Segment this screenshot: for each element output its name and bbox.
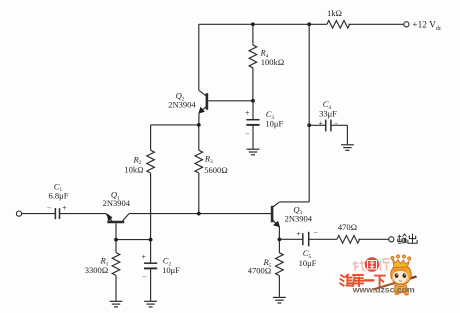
watermark zhao glyph: [353, 261, 366, 272]
label 1k ohm value: [327, 8, 342, 18]
svg-text:2N3904: 2N3904: [168, 100, 196, 110]
svg-text:+: +: [245, 109, 250, 118]
wire input to C1: [21, 213, 55, 215]
label C4 value: [319, 108, 337, 118]
supply terminal: [404, 22, 409, 27]
ground under C3: [247, 149, 260, 155]
label C5: [303, 248, 312, 260]
label R1 value 3300: [85, 265, 109, 275]
wire Q3 collector horizontal: [280, 201, 310, 203]
label R1: [100, 256, 109, 268]
wire C4 ground drop: [346, 125, 348, 144]
node Q3 emitter R5 output junction: [278, 238, 282, 242]
label Q3 type: [285, 214, 313, 224]
wire R1 lower lead: [115, 275, 117, 300]
ground under R1: [110, 301, 123, 307]
resistor R3: [195, 150, 203, 173]
label R3: [204, 153, 213, 165]
node R2 C2 junction: [149, 238, 153, 242]
wire R2 column upper lead: [150, 125, 152, 150]
svg-text:+: +: [296, 230, 301, 239]
svg-text:5600Ω: 5600Ω: [204, 165, 228, 175]
wire C2 upper lead: [150, 240, 152, 263]
svg-text:470Ω: 470Ω: [338, 222, 357, 232]
svg-text:−: −: [313, 228, 317, 237]
svg-text:10kΩ: 10kΩ: [124, 165, 143, 175]
watermark weiku yixia text: [340, 275, 385, 286]
svg-text:2N3904: 2N3904: [285, 214, 313, 224]
wire C3 upper lead: [252, 101, 254, 120]
label C2 minus: [142, 273, 146, 282]
label C2 plus: [142, 252, 147, 261]
transistor Q3: [272, 202, 280, 227]
label C5 minus: [313, 228, 317, 237]
wire R3 column upper lead: [198, 125, 200, 150]
label R2: [133, 154, 142, 166]
capacitor C4: [326, 120, 331, 132]
watermark pian glyph: [381, 259, 391, 272]
svg-text:−: −: [47, 204, 51, 213]
label C3: [266, 109, 275, 121]
output terminal: [389, 237, 394, 242]
resistor R4: [249, 45, 257, 68]
wire top rail right segment to terminal: [348, 23, 404, 25]
node Q1 base R1 junction: [114, 238, 118, 242]
label R5: [263, 257, 272, 269]
svg-text:100kΩ: 100kΩ: [261, 57, 285, 67]
label C5 plus: [296, 230, 301, 239]
capacitor C1: [55, 208, 59, 219]
transistor Q1: [106, 213, 129, 222]
label +12V supply: [412, 21, 442, 32]
label C1 value: [49, 191, 69, 201]
svg-text:3300Ω: 3300Ω: [85, 265, 109, 275]
label C4 plus: [318, 119, 323, 128]
label Q1 type: [103, 198, 131, 208]
label R5 value 4700: [248, 266, 272, 276]
wire main signal line Q1 collector to Q3 base: [129, 213, 271, 215]
svg-text:www.dzsc.com: www.dzsc.com: [352, 285, 415, 295]
transistor Q2: [198, 90, 207, 125]
label C1 plus: [62, 204, 67, 213]
label C5 value: [299, 258, 317, 268]
label C2: [163, 256, 172, 268]
wire R4 lower lead to node A: [252, 68, 254, 101]
node A Q2 base R4 C3 junction: [251, 99, 255, 103]
watermark tu badge: [365, 257, 379, 271]
wire Q1 base drop: [115, 223, 117, 239]
wire R3 column lower lead: [198, 173, 200, 214]
label C4 minus: [334, 119, 338, 128]
label Q2: [176, 91, 185, 103]
capacitor C3: [246, 120, 259, 125]
capacitor C2: [144, 263, 157, 268]
wire R2 column lower lead crossing signal line: [150, 173, 152, 240]
label output (shuchu): [397, 234, 417, 244]
label C4: [323, 99, 332, 111]
capacitor C5: [303, 232, 309, 247]
label 470 ohm value: [338, 222, 357, 232]
resistor R2: [147, 150, 155, 173]
wire right vertical column: [308, 24, 310, 202]
svg-text:10μF: 10μF: [265, 119, 283, 129]
svg-text:+: +: [142, 252, 147, 261]
wire R2 top link: [151, 124, 199, 126]
svg-text:−: −: [334, 119, 338, 128]
wire R5 upper lead: [278, 239, 280, 252]
wire Q2 base to node A: [208, 100, 253, 102]
label Q2 type: [168, 100, 196, 110]
ground under C4: [341, 145, 354, 151]
svg-text:10μF: 10μF: [162, 265, 180, 275]
label R2 value 10k: [124, 165, 143, 175]
svg-text:2N3904: 2N3904: [103, 198, 131, 208]
ground under C2: [144, 301, 157, 307]
node R3 signal line junction: [197, 212, 201, 216]
label Q1: [111, 190, 120, 202]
svg-text:6.8μF: 6.8μF: [49, 191, 69, 201]
wire top supply rail: [199, 23, 327, 25]
label R3 value 5600: [204, 165, 228, 175]
svg-text:1kΩ: 1kΩ: [327, 8, 342, 18]
wire 470 ohm to output terminal: [358, 238, 389, 240]
wire C4 right lead: [331, 124, 347, 126]
wire C1 to Q1 emitter: [60, 213, 106, 215]
ground under R5: [273, 297, 286, 303]
node rail-R4 junction: [251, 22, 255, 26]
label C2 value: [162, 265, 180, 275]
svg-text:−: −: [142, 273, 146, 282]
label C3 minus: [245, 129, 249, 138]
label C3 value: [265, 119, 283, 129]
label C1: [54, 181, 63, 193]
wire R5 lower lead: [278, 276, 280, 297]
wire R1 to C2 node link: [116, 239, 151, 241]
node Q2 emitter R2 R3 junction: [197, 123, 201, 127]
wire R1 upper lead: [115, 240, 117, 253]
wire C3 lower lead: [252, 125, 254, 148]
resistor R5: [276, 253, 284, 276]
wire Q3 emitter drop: [278, 227, 280, 240]
wire output node to C5: [279, 238, 302, 240]
wire C5 to 470 ohm resistor: [309, 238, 337, 240]
label R4: [260, 48, 269, 60]
svg-text:+: +: [62, 204, 67, 213]
label Q3: [293, 204, 302, 216]
label R4 value 100k: [261, 57, 285, 67]
svg-text:4700Ω: 4700Ω: [248, 266, 272, 276]
watermark mascot: [373, 255, 417, 296]
resistor 1k ohm supply: [327, 21, 350, 29]
svg-text:−: −: [245, 129, 249, 138]
node rail-right-column junction: [307, 22, 311, 26]
svg-text:33μF: 33μF: [319, 108, 337, 118]
resistor 470 ohm output: [337, 236, 360, 244]
node C4 tap junction: [307, 123, 311, 127]
label C3 plus: [245, 109, 250, 118]
svg-text:10μF: 10μF: [299, 258, 317, 268]
watermark url www.dzsc.com: [352, 285, 415, 295]
wire C2 lower lead: [150, 269, 152, 301]
input terminal: [16, 211, 21, 216]
svg-text:+: +: [318, 119, 323, 128]
label C1 minus: [47, 204, 51, 213]
wire R4 upper lead: [252, 24, 254, 45]
wire C4 left lead: [309, 124, 325, 126]
resistor R1: [112, 253, 120, 276]
wire left vertical drop to Q2 collector: [198, 24, 200, 90]
